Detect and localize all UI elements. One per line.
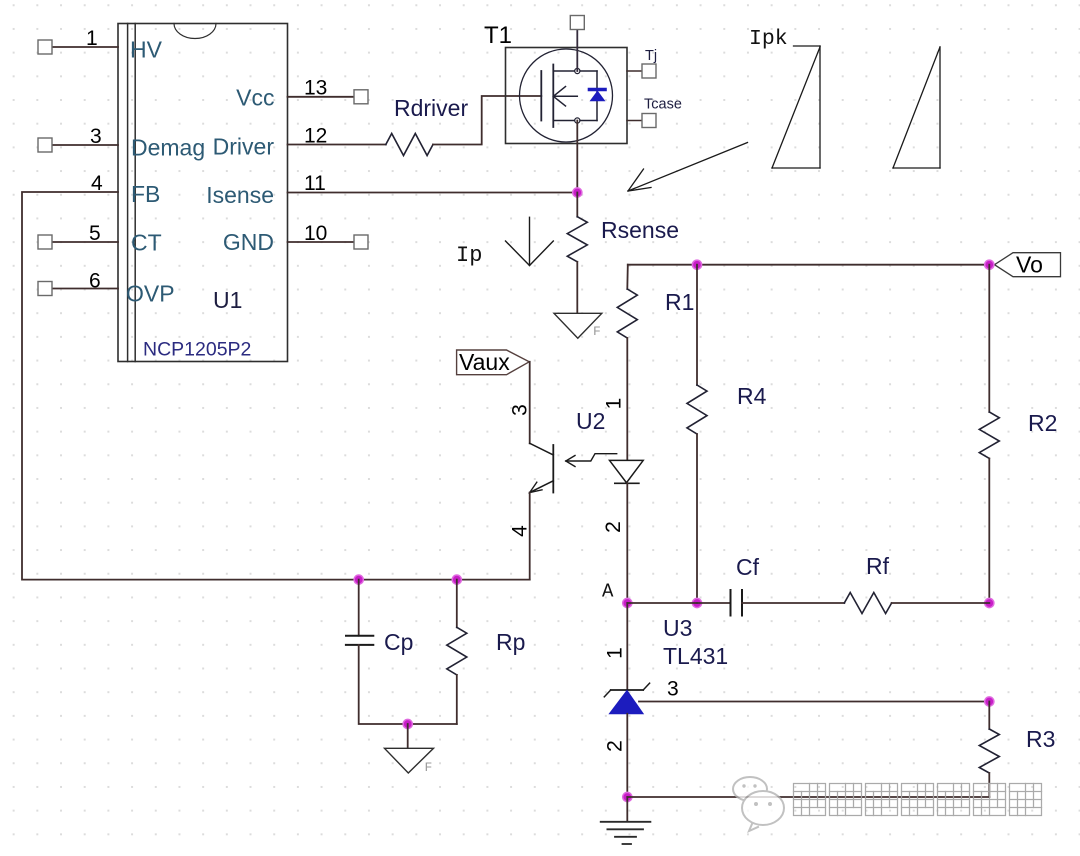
wire U3 anode down <box>626 714 628 797</box>
resistor R1 <box>617 289 637 338</box>
terminal square pin5 <box>38 235 52 249</box>
shunt regulator U3 TL431 <box>604 683 649 714</box>
junction node Cp/Rp ground <box>403 719 412 728</box>
junction node U3 anode <box>623 792 632 801</box>
svg-text:Tj: Tj <box>645 48 657 64</box>
wire R3 top <box>988 702 990 730</box>
optocoupler U2 phototransistor <box>530 443 554 492</box>
junction node pin3/R3 <box>985 697 994 706</box>
wire U3 reference pin 3 <box>639 701 989 703</box>
svg-text:1: 1 <box>604 647 627 659</box>
resistor R2 <box>979 412 999 458</box>
svg-text:TL431: TL431 <box>663 643 728 669</box>
capacitor Cf <box>731 590 743 616</box>
terminal square pin10 <box>354 235 368 249</box>
svg-text:Rsense: Rsense <box>601 217 679 243</box>
wire pin5 CT stub <box>52 241 118 243</box>
resistor R4 <box>687 385 707 434</box>
svg-text:Driver: Driver <box>213 134 275 160</box>
wire U2 LED cathode to node A <box>626 483 628 603</box>
wire Tcase stub <box>627 120 642 122</box>
junction node Vo/R2 <box>985 260 994 269</box>
wire Cp top <box>358 580 360 636</box>
svg-text:Cp: Cp <box>384 629 413 655</box>
waveform triangle 1 <box>772 46 820 168</box>
svg-text:R1: R1 <box>665 289 694 315</box>
wire pin13 Vcc stub <box>288 96 355 98</box>
svg-text:Tcase: Tcase <box>644 97 682 113</box>
net flag Vaux <box>457 349 530 375</box>
svg-text:T1: T1 <box>484 22 512 49</box>
wire T1 drain from top terminal <box>576 30 578 72</box>
wire R4 vertical <box>696 265 698 385</box>
terminal square pin6 <box>38 282 52 296</box>
wire pin11 Isense to drain node <box>288 192 578 194</box>
svg-text:Ipk: Ipk <box>749 27 788 51</box>
resistor Rf <box>844 593 891 614</box>
junction node Vo/R4 <box>692 260 701 269</box>
svg-text:Rdriver: Rdriver <box>394 95 468 121</box>
IC U1 NCP1205P2 body <box>118 24 288 362</box>
wire node R4 to Cf <box>697 602 731 604</box>
wire bottom rail U3 to R3 <box>627 796 989 798</box>
wire R2 to bottom node <box>988 458 990 603</box>
wire R3 bottom <box>988 773 990 797</box>
wire node to Rsense <box>576 193 578 217</box>
wire to earth ground <box>626 797 628 822</box>
svg-text:NCP1205P2: NCP1205P2 <box>143 339 251 361</box>
wire Cp bottom <box>359 645 457 724</box>
terminal square T1 drain <box>570 16 584 30</box>
wire U2 emitter to bottom bus <box>529 493 531 580</box>
svg-text:R4: R4 <box>737 383 767 409</box>
wire node to ground F <box>407 724 409 748</box>
wire R4 to bottom node <box>696 434 698 603</box>
ground F (Rsense) <box>554 313 602 339</box>
svg-text:R3: R3 <box>1026 726 1055 752</box>
svg-text:Vcc: Vcc <box>236 85 274 111</box>
wire Vo top rail <box>628 264 990 266</box>
wire Rsense to ground <box>576 262 578 314</box>
svg-text:Cf: Cf <box>736 554 760 580</box>
svg-text:R2: R2 <box>1028 410 1057 436</box>
waveform triangle 2 <box>893 47 940 168</box>
wire Rp top <box>456 580 458 628</box>
svg-text:CT: CT <box>131 230 162 256</box>
watermark text <box>794 784 1042 816</box>
svg-text:4: 4 <box>509 525 532 537</box>
svg-text:Vaux: Vaux <box>459 349 510 375</box>
wire R2 vertical <box>988 265 990 412</box>
resistor Rp <box>447 627 467 675</box>
wire R1 to U2 LED anode <box>626 338 628 460</box>
svg-text:F: F <box>425 760 433 775</box>
earth ground <box>601 822 651 844</box>
optocoupler U2 LED <box>610 460 644 483</box>
terminal square pin1 <box>38 40 52 54</box>
svg-text:Isense: Isense <box>206 182 274 208</box>
resistor R3 <box>979 729 999 773</box>
terminal square pin3 <box>38 138 52 152</box>
svg-text:11: 11 <box>304 172 326 195</box>
junction node on bus (Rp) <box>452 575 461 584</box>
svg-text:Rf: Rf <box>866 553 890 579</box>
wire FB pin4 to bottom-left bus <box>22 192 530 580</box>
wire pin12 Driver to Rdriver <box>288 144 386 146</box>
wire Rp bottom <box>456 675 458 724</box>
resistor Rdriver <box>386 134 433 156</box>
terminal square pin13 <box>354 90 368 104</box>
U2 light arrow <box>566 454 617 467</box>
current arrow Ip <box>506 217 554 265</box>
wire node A to node R4 <box>627 602 697 604</box>
watermark <box>733 777 784 831</box>
svg-text:U1: U1 <box>213 287 242 313</box>
svg-text:1: 1 <box>603 398 626 410</box>
wire pin3 Demag stub <box>52 144 118 146</box>
svg-text:2: 2 <box>602 521 625 533</box>
wire pin6 OVP stub <box>52 288 118 290</box>
ground F (Cp/Rp) <box>385 748 434 775</box>
junction node R4/Cf <box>692 598 701 607</box>
svg-text:Demag: Demag <box>131 135 205 161</box>
wire node A down to U3 <box>626 603 628 690</box>
wire Vaux to U2 collector <box>529 362 531 444</box>
wire R1 top <box>626 265 629 289</box>
svg-text:U3: U3 <box>663 615 692 641</box>
junction node A <box>623 598 632 607</box>
svg-text:GND: GND <box>223 229 274 255</box>
resistor Rsense <box>567 217 587 262</box>
svg-text:OVP: OVP <box>126 281 175 307</box>
junction node Rf/R2 <box>985 598 994 607</box>
svg-text:Vo: Vo <box>1016 252 1043 278</box>
junction node drain/Isense <box>573 188 582 197</box>
wire Rf to node <box>892 602 990 604</box>
annotation arrow Ipk to drain node <box>628 143 748 192</box>
svg-text:F: F <box>593 324 601 339</box>
svg-text:2: 2 <box>604 740 627 752</box>
svg-text:U2: U2 <box>576 408 605 434</box>
terminal square Tj <box>642 64 656 78</box>
wire Cf to Rf <box>742 602 844 604</box>
svg-text:3: 3 <box>509 404 532 416</box>
wire Rdriver to T1 gate <box>433 96 541 145</box>
svg-text:HV: HV <box>130 37 163 63</box>
wire T1 source to node <box>576 121 578 193</box>
svg-text:FB: FB <box>131 181 160 207</box>
wire pin1 HV stub <box>52 46 118 48</box>
junction node on bus (Cp) <box>354 575 363 584</box>
T1 body diode <box>590 90 606 101</box>
svg-text:Ip: Ip <box>456 243 482 268</box>
wire pin10 GND stub <box>288 241 355 243</box>
wire Tj stub <box>627 70 642 72</box>
svg-text:Rp: Rp <box>496 629 525 655</box>
svg-text:A: A <box>602 581 614 603</box>
terminal square Tcase <box>642 114 656 128</box>
transistor T1 MOSFET body <box>506 48 628 144</box>
capacitor Cp <box>346 636 373 645</box>
net flag Vo <box>995 252 1061 278</box>
svg-text:3: 3 <box>667 678 679 701</box>
